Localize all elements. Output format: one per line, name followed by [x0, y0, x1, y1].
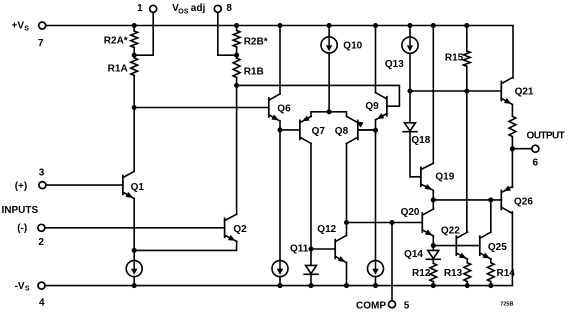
svg-text:Q10: Q10	[343, 40, 362, 51]
svg-text:Q22: Q22	[441, 226, 460, 237]
svg-text:4: 4	[39, 298, 45, 309]
svg-text:Q11: Q11	[290, 244, 309, 255]
svg-text:OS: OS	[178, 8, 188, 15]
svg-text:Q7: Q7	[312, 126, 326, 137]
svg-text:(+): (+)	[15, 181, 28, 192]
svg-text:Q12: Q12	[317, 224, 336, 235]
svg-text:6: 6	[533, 158, 539, 169]
svg-text:Q18: Q18	[411, 135, 430, 146]
svg-text:Q13: Q13	[385, 59, 404, 70]
svg-text:2: 2	[38, 237, 44, 248]
svg-text:R2B*: R2B*	[244, 36, 268, 47]
svg-text:1: 1	[137, 3, 143, 14]
svg-text:adj: adj	[191, 3, 206, 14]
svg-text:Q14: Q14	[404, 249, 423, 260]
svg-text:725B: 725B	[500, 302, 513, 308]
svg-text:Q6: Q6	[277, 103, 291, 114]
svg-text:+V: +V	[11, 21, 24, 32]
svg-text:R12: R12	[412, 268, 431, 279]
svg-text:-V: -V	[15, 281, 25, 292]
svg-text:R14: R14	[497, 268, 516, 279]
svg-text:(-): (-)	[17, 223, 27, 234]
svg-text:Q20: Q20	[401, 207, 420, 218]
svg-text:R13: R13	[444, 268, 463, 279]
svg-text:OUTPUT: OUTPUT	[527, 131, 565, 142]
svg-text:3: 3	[39, 168, 45, 179]
svg-text:S: S	[24, 25, 29, 32]
svg-text:Q8: Q8	[335, 126, 349, 137]
svg-text:R1B: R1B	[244, 67, 264, 78]
svg-text:INPUTS: INPUTS	[2, 205, 39, 216]
svg-text:Q2: Q2	[233, 224, 247, 235]
svg-text:COMP: COMP	[356, 301, 386, 312]
svg-text:5: 5	[404, 301, 410, 312]
svg-text:Q25: Q25	[488, 242, 507, 253]
svg-text:Q1: Q1	[131, 182, 145, 193]
svg-text:Q21: Q21	[515, 86, 534, 97]
svg-text:Q26: Q26	[514, 197, 533, 208]
svg-text:Q19: Q19	[435, 172, 454, 183]
svg-text:8: 8	[226, 3, 232, 14]
svg-text:Q9: Q9	[365, 101, 379, 112]
svg-text:R15: R15	[445, 52, 464, 63]
svg-text:S: S	[25, 286, 30, 293]
svg-text:R1A: R1A	[108, 64, 128, 75]
svg-text:7: 7	[38, 38, 44, 49]
svg-text:R2A*: R2A*	[104, 36, 128, 47]
